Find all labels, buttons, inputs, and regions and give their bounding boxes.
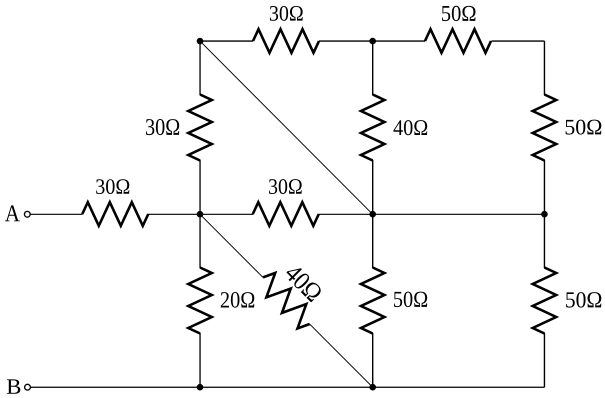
label 50ohm right column top (566, 120, 602, 135)
resistor 40ohm diagonal (255, 269, 318, 332)
label 50ohm top row (442, 6, 476, 21)
wire right column below mid node (543, 214, 545, 268)
wire top row right segment (492, 40, 545, 42)
wire diagonal upper lead of 40ohm resistor (200, 214, 263, 277)
wire left column bottom stub (199, 333, 201, 387)
wire right column bottom stub (543, 333, 545, 387)
label 30ohm top row (270, 6, 303, 21)
node dot bottom-middle (369, 384, 376, 391)
label 50ohm middle column (394, 292, 427, 308)
wire left column above mid node (199, 160, 201, 214)
label 40ohm diagonal (284, 263, 324, 303)
resistor 30ohm mid row (253, 202, 319, 226)
wire top row left segment (200, 40, 253, 42)
resistor 20ohm left column vertical (188, 268, 212, 334)
label B (7, 379, 20, 393)
wire middle column below mid node (372, 214, 374, 268)
wire left column upper stub (199, 41, 201, 95)
wire middle column bottom stub (372, 333, 374, 387)
wire mid row resistor to middle node (319, 213, 373, 215)
label 50ohm right column bottom (566, 292, 601, 308)
wire bottom row from terminal B (31, 386, 545, 388)
wire mid row right segment (373, 213, 545, 215)
wire mid row node to resistor (200, 213, 253, 215)
node dot top-middle (369, 38, 376, 45)
wire right column above mid node (543, 160, 545, 214)
wire diagonal from top-left node to middle node (200, 41, 373, 214)
wire middle column upper stub (372, 41, 374, 95)
resistor 40ohm middle column vertical (361, 95, 385, 161)
wire right column upper stub (543, 41, 545, 95)
label A (5, 205, 20, 221)
wire middle column above mid node (372, 160, 374, 214)
terminal A circle (24, 211, 30, 217)
node dot mid-middle (369, 211, 376, 218)
resistor 30ohm top row (253, 29, 319, 53)
label 30ohm at A row (96, 179, 129, 194)
wire mid row into left node (148, 213, 200, 215)
label 30ohm mid row (269, 179, 302, 194)
node dot mid-left (197, 211, 204, 218)
label 40ohm middle column (394, 120, 428, 135)
resistor 50ohm right column top vertical (533, 95, 557, 161)
terminal B circle (25, 384, 31, 390)
node dot top-left (197, 38, 204, 45)
label 20ohm left column (221, 292, 255, 308)
label 30ohm left column (146, 119, 179, 135)
node dot mid-right (541, 211, 548, 218)
resistor 50ohm top row (425, 29, 491, 53)
resistor 30ohm left column vertical (188, 95, 212, 161)
resistor 50ohm middle column vertical (361, 268, 385, 334)
wire from terminal A to resistor (31, 213, 83, 215)
wire top row middle segment (319, 40, 425, 42)
wire left column below mid node (199, 214, 201, 268)
resistor 30ohm horizontal at A row (82, 202, 148, 226)
resistor 50ohm right column bottom vertical (533, 268, 557, 334)
node dot bottom-left (197, 384, 204, 391)
wire diagonal lower lead of 40ohm resistor (310, 324, 373, 387)
